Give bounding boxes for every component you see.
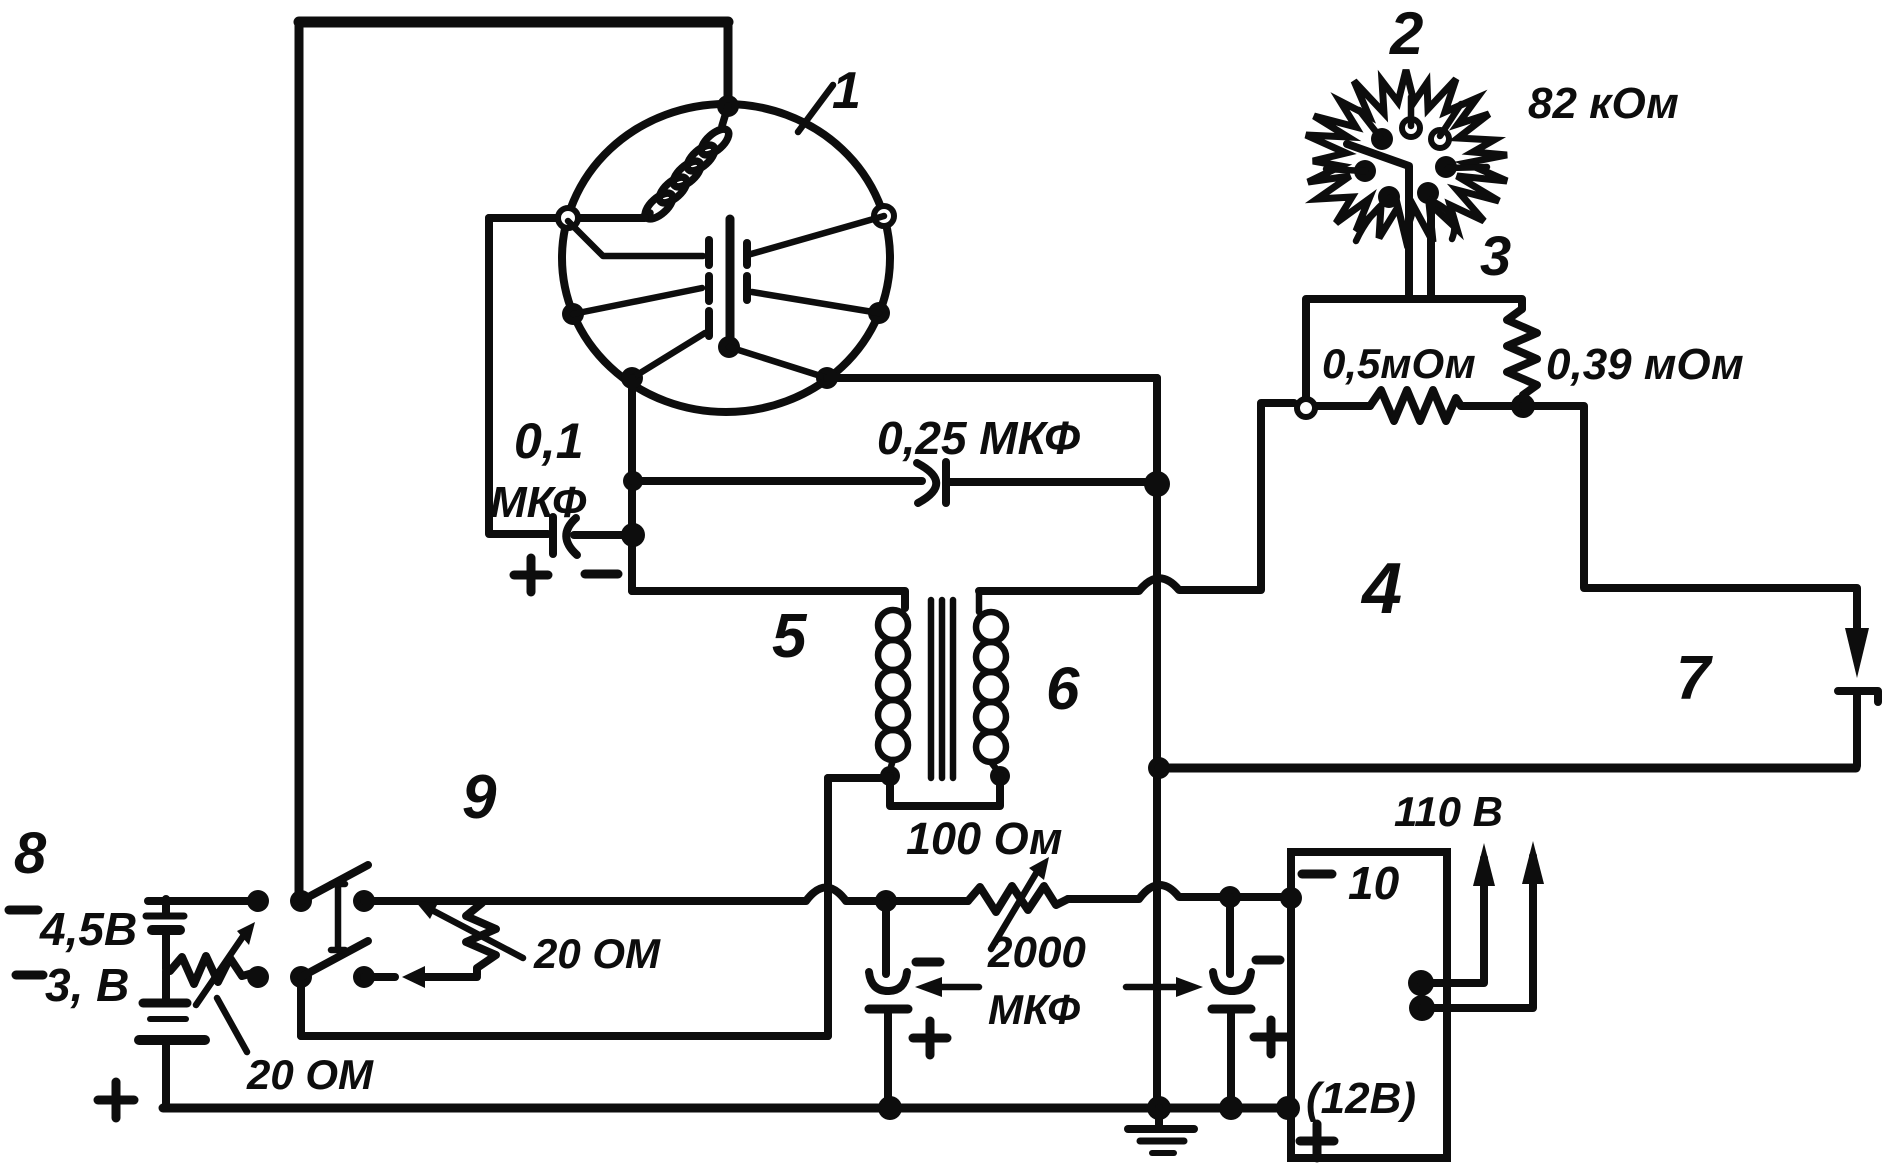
svg-text:0,5мОм: 0,5мОм — [1322, 340, 1476, 387]
svg-text:7: 7 — [1676, 644, 1713, 713]
spark gap 7 plate — [1838, 691, 1878, 766]
tube heater coil — [641, 106, 733, 223]
svg-text:6: 6 — [1046, 655, 1080, 722]
wire transformer to left — [828, 774, 890, 782]
spark gap 7 arrow — [1845, 628, 1869, 678]
label 3 — [1480, 224, 1511, 287]
tube anode1 connection — [751, 216, 884, 254]
ground — [1128, 1108, 1194, 1153]
wire switch-down vertical — [297, 977, 305, 1036]
switch contact dots — [247, 890, 375, 988]
tube pin left-lower — [562, 303, 584, 325]
label (12V) — [1306, 1074, 1416, 1123]
label arrow left — [915, 977, 979, 997]
wire node to element 7 — [1523, 406, 1857, 630]
label 2 — [1389, 0, 1423, 67]
label 20 Ohm lower leader — [217, 998, 247, 1052]
box minus — [1302, 870, 1332, 879]
label 1 — [832, 62, 861, 120]
node dot 1160,768 — [1148, 757, 1170, 779]
transformer bottom bracket — [890, 776, 1000, 806]
svg-text:2: 2 — [1389, 0, 1423, 67]
node dot 634,481 — [623, 471, 643, 491]
label -3V — [16, 959, 129, 1011]
wire battery to switch — [148, 897, 256, 905]
transformer primary bottom dot — [880, 766, 900, 786]
svg-text:0,1: 0,1 — [514, 413, 584, 469]
svg-text:(12В): (12В) — [1306, 1074, 1416, 1123]
starburst electrode dots — [1354, 119, 1457, 208]
capacitor 0.25uF with wire — [633, 462, 1157, 503]
starburst lamp 2 outline — [1306, 70, 1507, 242]
label 0.25 MKF — [877, 412, 1080, 464]
box terminal dot upper — [1408, 970, 1434, 996]
tube grid2 connection — [573, 288, 702, 314]
box terminal dot lower — [1409, 995, 1435, 1021]
svg-text:4,5В: 4,5В — [39, 903, 137, 955]
switch lever upper — [301, 865, 368, 901]
label 5 — [772, 602, 808, 671]
label 4 — [1360, 549, 1402, 629]
tube cathode — [726, 219, 735, 341]
label 82 kOhm — [1528, 79, 1679, 128]
wire tube anode to right vertical — [827, 374, 1157, 382]
electrode fork 3 — [1347, 144, 1431, 299]
label 0.39 MOhm — [1546, 340, 1744, 389]
rheostat 20 Ohm left zigzag — [170, 956, 253, 984]
resistor 0.39 MOhm zigzag — [1507, 309, 1537, 406]
capacitor C2 plus — [1254, 1020, 1288, 1054]
tube anode2 connection — [752, 292, 879, 313]
battery plus sign — [98, 1082, 134, 1118]
capacitor C1 plus — [913, 1021, 947, 1055]
tube cathode to pin wire — [729, 347, 827, 378]
node dot 634,533 — [621, 523, 645, 547]
capacitor 0.1uF plus sign — [514, 558, 548, 592]
svg-text:2000: 2000 — [987, 928, 1086, 977]
capacitor C1 2000uF — [869, 901, 908, 1108]
tube pin right-upper — [874, 206, 894, 226]
svg-text:5: 5 — [772, 602, 808, 671]
wire bottom rail — [163, 1104, 1288, 1113]
resistor 0.5 MOhm loop — [1306, 299, 1523, 421]
starburst electrode leads — [1326, 97, 1487, 241]
label 1 leader — [798, 85, 833, 132]
wire left tall vertical — [295, 22, 304, 899]
label 10 — [1348, 857, 1400, 909]
svg-text:3: 3 — [1480, 224, 1511, 287]
tube grid3 connection — [632, 333, 705, 378]
node dot 1161,1108 — [1147, 1096, 1171, 1120]
capacitor 0.1uF — [489, 517, 630, 555]
label 7 — [1676, 644, 1713, 713]
svg-text:100 Ом: 100 Ом — [906, 813, 1062, 864]
converter box 10 — [1291, 852, 1447, 1158]
rheostat 100 Ohm zigzag — [968, 886, 1068, 912]
tube pin right-lower — [868, 302, 890, 324]
tube pin bottom-right — [816, 367, 838, 389]
label 6 — [1046, 655, 1080, 722]
node circle 1306,409 — [1297, 399, 1315, 417]
tube grid bars left — [705, 240, 713, 336]
svg-text:0,25 МКФ: 0,25 МКФ — [877, 412, 1080, 464]
label 20 Ohm upper — [533, 930, 661, 977]
wire rail y901 continued — [1068, 885, 1290, 899]
label 9 — [462, 763, 497, 832]
battery 8 — [139, 899, 205, 1108]
tube pin left-upper — [558, 208, 578, 228]
switch link bar — [331, 884, 345, 950]
node dot rail-box — [1280, 887, 1302, 909]
svg-text:3, В: 3, В — [45, 959, 129, 1011]
svg-text:1: 1 — [832, 62, 861, 120]
tube grid bars right — [743, 243, 751, 300]
label 110V — [1394, 788, 1503, 835]
transformer T1 secondary winding — [976, 591, 1006, 770]
capacitor 0.1uF minus sign — [585, 570, 618, 579]
wire tube top lead — [724, 22, 733, 103]
svg-text:4: 4 — [1360, 549, 1402, 629]
wire x634 vertical — [628, 378, 636, 591]
node dot 1233,1108 — [1219, 1096, 1243, 1120]
label 0.1 MKF — [490, 413, 587, 527]
svg-text:9: 9 — [462, 763, 497, 832]
capacitor C2 2000uF — [1212, 897, 1251, 1108]
tube cathode dot — [718, 336, 740, 358]
tube pin top — [717, 95, 739, 117]
svg-text:20 ОМ: 20 ОМ — [246, 1051, 374, 1098]
label arrow right — [1126, 977, 1203, 997]
node dot 1523,406 — [1511, 394, 1535, 418]
label 100 Ohm — [906, 813, 1062, 864]
rheostat 20 Ohm left arrow — [196, 922, 255, 1005]
wire top rail — [299, 17, 728, 28]
wire grid lead horizontal y218 — [489, 214, 645, 222]
wire secondary top to right with hop — [979, 403, 1294, 591]
node dot 1230,897 — [1219, 886, 1241, 908]
svg-text:110 В: 110 В — [1394, 788, 1503, 835]
svg-text:0,39 мОм: 0,39 мОм — [1546, 340, 1744, 389]
svg-text:8: 8 — [14, 821, 47, 886]
wire 110V output 2 — [1422, 841, 1544, 1008]
label 20 Ohm lower — [246, 1051, 374, 1098]
node dot 1288,1108 — [1276, 1096, 1300, 1120]
svg-text:82 кОм: 82 кОм — [1528, 79, 1679, 128]
wire y768 rail to element 7 — [1159, 764, 1856, 773]
rheostat 100 Ohm arrow — [991, 857, 1049, 949]
rheostat 20 Ohm upper arrow — [415, 901, 523, 958]
label 2000 MKF — [987, 928, 1086, 1033]
label 0.5 MOhm — [1322, 340, 1476, 387]
svg-text:10: 10 — [1348, 857, 1400, 909]
switch lever lower — [301, 941, 368, 977]
capacitor C1 minus — [916, 958, 940, 967]
tube pin bottom-left — [621, 367, 643, 389]
wire 110V output 1 — [1421, 843, 1495, 983]
transformer T1 primary winding — [878, 610, 908, 770]
svg-text:МКФ: МКФ — [490, 478, 587, 527]
wire x828 down — [824, 778, 832, 1036]
svg-text:МКФ: МКФ — [988, 986, 1080, 1033]
svg-text:20 ОМ: 20 ОМ — [533, 930, 661, 977]
wire x489 vertical — [485, 218, 493, 533]
wire y591 to transformer — [632, 591, 905, 608]
transformer secondary bottom dot — [990, 766, 1010, 786]
node dot 886,901 — [875, 890, 897, 912]
tube U1 envelope — [562, 104, 890, 412]
node dot 1157,484 — [1144, 471, 1170, 497]
rheostat 20 Ohm upper zigzag — [466, 903, 496, 975]
box plus sign — [1300, 1124, 1334, 1158]
transformer T1 core — [931, 600, 953, 778]
wire right tall vertical x1157 — [1153, 378, 1161, 1110]
wire switch to rheostat with arrow — [364, 966, 477, 988]
wire y1036 left — [301, 1032, 828, 1040]
capacitor C2 minus — [1256, 956, 1280, 965]
label 8 — [14, 821, 47, 886]
label -4.5V — [9, 903, 137, 955]
tube grid1 connection — [568, 221, 703, 256]
wire rail y901 — [364, 888, 968, 902]
node dot 890,1109 — [878, 1096, 902, 1120]
